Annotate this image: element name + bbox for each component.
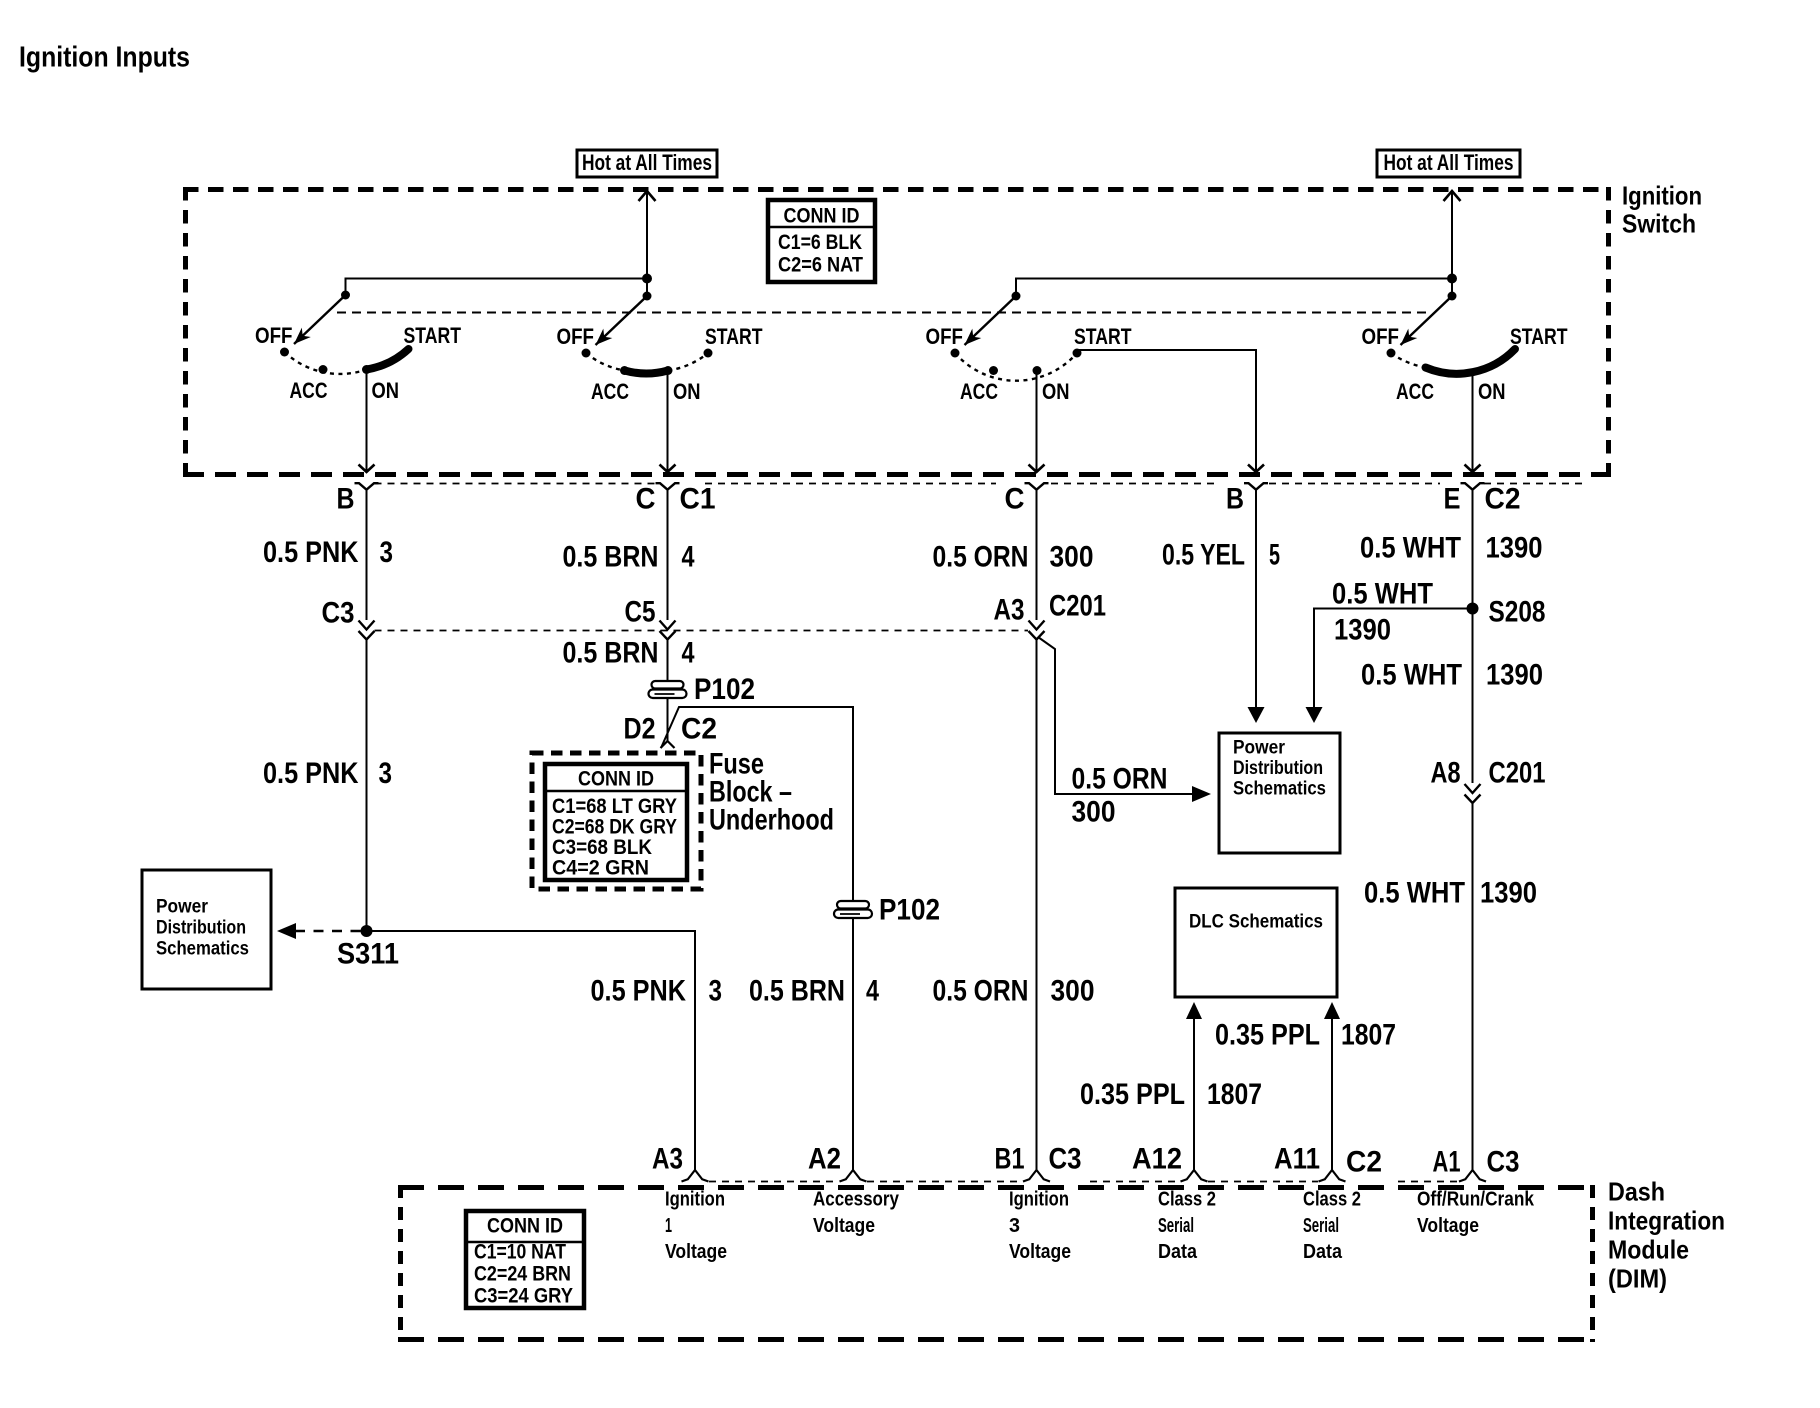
thin dashed connector line C201/C5/C3 row bbox=[375, 630, 1029, 632]
svg-text:0.5 BRN: 0.5 BRN bbox=[563, 636, 659, 669]
wire 0.5 BRN 4 second segment bbox=[667, 640, 669, 682]
svg-text:A3: A3 bbox=[652, 1142, 683, 1175]
svg-text:C3=24 GRY: C3=24 GRY bbox=[474, 1285, 573, 1308]
svg-text:C: C bbox=[636, 482, 656, 515]
connector C5 inline bbox=[660, 621, 676, 640]
svg-text:Switch: Switch bbox=[1622, 208, 1696, 238]
ignition switch S3 pivot bbox=[1012, 292, 1021, 301]
svg-text:0.5 PNK: 0.5 PNK bbox=[263, 757, 359, 790]
wire bus ignition switch 1-2 bbox=[346, 279, 648, 296]
svg-text:300: 300 bbox=[1050, 540, 1094, 573]
wire hot feed to left Hot at All Times with up arrow bbox=[639, 191, 656, 296]
junction dot feed 2 bbox=[1447, 274, 1457, 284]
wire 0.5 BRN 4 upper segment bbox=[667, 497, 669, 620]
svg-text:Integration: Integration bbox=[1608, 1205, 1725, 1235]
ignition switch S1 position arc thick ON-START bbox=[367, 349, 409, 370]
svg-text:START: START bbox=[705, 324, 763, 349]
svg-text:Voltage: Voltage bbox=[813, 1214, 875, 1237]
svg-text:Underhood: Underhood bbox=[709, 803, 834, 836]
svg-text:0.5 YEL: 0.5 YEL bbox=[1162, 538, 1245, 571]
inline connector P102 (accessory wire) bbox=[834, 901, 872, 918]
svg-text:A3: A3 bbox=[994, 593, 1025, 626]
wire 0.5 ORN 300 main segment down to B1 bbox=[1036, 640, 1038, 1171]
svg-text:0.5 WHT: 0.5 WHT bbox=[1361, 658, 1462, 691]
svg-text:S311: S311 bbox=[337, 937, 399, 970]
label Ignition Switch bbox=[1622, 181, 1702, 239]
connector D2 at fuse block bbox=[661, 741, 675, 748]
svg-text:ON: ON bbox=[1478, 379, 1506, 404]
svg-text:Schematics: Schematics bbox=[156, 937, 249, 959]
svg-text:CONN ID: CONN ID bbox=[487, 1214, 563, 1237]
svg-text:OFF: OFF bbox=[557, 324, 595, 349]
wire hot feed to right Hot at All Times with up arrow bbox=[1444, 191, 1461, 296]
svg-text:C201: C201 bbox=[1489, 756, 1546, 789]
svg-text:0.5 PNK: 0.5 PNK bbox=[591, 974, 687, 1007]
inline connector P102 (wire 2) bbox=[649, 681, 687, 698]
fuse block enclosure box bbox=[532, 753, 701, 889]
wire bus ignition switch 3-4 bbox=[1016, 279, 1452, 297]
svg-text:Ignition Inputs: Ignition Inputs bbox=[19, 41, 190, 73]
ignition switch S2 ON contact bbox=[664, 366, 673, 375]
ignition switch S1 pivot bbox=[341, 291, 350, 300]
ignition switch enclosure box bbox=[183, 187, 1611, 476]
svg-text:CONN ID: CONN ID bbox=[578, 767, 654, 790]
svg-text:Voltage: Voltage bbox=[1417, 1214, 1479, 1237]
ignition switch S2 position arc thick ACC-ON bbox=[625, 371, 669, 374]
ignition switch S2 pivot bbox=[643, 292, 652, 301]
ignition switch S2 START contact bbox=[704, 349, 713, 358]
svg-text:Power: Power bbox=[1233, 736, 1285, 758]
ignition switch S4 OFF contact bbox=[1387, 349, 1396, 358]
ignition switch S3 travel arc dashed bbox=[955, 353, 1077, 381]
svg-text:Ignition: Ignition bbox=[1622, 181, 1702, 211]
connector pin C at ignition switch bottom edge bbox=[1025, 483, 1049, 490]
svg-text:1390: 1390 bbox=[1486, 531, 1543, 564]
svg-text:0.5 WHT: 0.5 WHT bbox=[1360, 531, 1461, 564]
pin function Class 2 Serial Data (A12) bbox=[1158, 1188, 1216, 1263]
ignition switch S1 ACC contact bbox=[319, 365, 328, 374]
svg-text:Data: Data bbox=[1303, 1240, 1343, 1263]
wire S1 ON output down bbox=[359, 372, 375, 472]
wire 0.5 PNK 3 mid segment bbox=[366, 640, 368, 932]
wire S3 START output right then down bbox=[1077, 350, 1264, 472]
wire 0.5 PNK from S311 right and down to A3 bbox=[367, 931, 696, 1170]
svg-text:1: 1 bbox=[665, 1214, 672, 1237]
svg-text:3: 3 bbox=[380, 536, 394, 569]
svg-text:C3: C3 bbox=[322, 597, 355, 630]
svg-text:ACC: ACC bbox=[290, 378, 328, 403]
svg-text:0.5 ORN: 0.5 ORN bbox=[933, 974, 1029, 1007]
ignition switch S3 OFF contact bbox=[951, 349, 960, 358]
svg-text:C4=2 GRN: C4=2 GRN bbox=[552, 857, 649, 880]
wire 0.5 WHT 1390 upper segment bbox=[1472, 497, 1474, 783]
svg-text:C201: C201 bbox=[1049, 590, 1106, 623]
wire 0.5 ORN 300 branch to power distribution bbox=[1038, 637, 1211, 802]
svg-text:1390: 1390 bbox=[1334, 613, 1391, 646]
wire 0.5 WHT branch from S208 to power distribution bbox=[1306, 609, 1472, 724]
svg-text:START: START bbox=[1510, 324, 1568, 349]
svg-text:A11: A11 bbox=[1274, 1142, 1320, 1175]
connector pin A11 at DIM top edge bbox=[1319, 1170, 1346, 1182]
svg-text:B1: B1 bbox=[995, 1142, 1025, 1175]
svg-text:START: START bbox=[1074, 324, 1132, 349]
svg-text:1807: 1807 bbox=[1207, 1078, 1262, 1111]
svg-text:0.5 BRN: 0.5 BRN bbox=[749, 974, 845, 1007]
connector pin A2 at DIM top edge bbox=[840, 1170, 867, 1182]
module box DLC Schematics bbox=[1175, 888, 1337, 997]
thin dashed connector line at DIM top bbox=[709, 1181, 1458, 1183]
connector pin A1 at DIM top edge bbox=[1459, 1170, 1486, 1182]
svg-text:4: 4 bbox=[682, 540, 695, 573]
connector C3 inline bbox=[359, 621, 375, 640]
svg-text:Hot at All Times: Hot at All Times bbox=[1384, 150, 1514, 175]
connector C201 inline (wire 5) bbox=[1465, 784, 1481, 803]
ignition switch S2 ACC contact bbox=[620, 366, 629, 375]
thin dashed connector line at ignition switch bottom bbox=[375, 483, 1583, 485]
svg-text:C2: C2 bbox=[1346, 1145, 1382, 1178]
pin function Ignition 1 Voltage bbox=[665, 1188, 727, 1263]
svg-text:0.5 BRN: 0.5 BRN bbox=[563, 540, 659, 573]
svg-text:Dash: Dash bbox=[1608, 1176, 1665, 1206]
svg-text:A8: A8 bbox=[1431, 756, 1461, 789]
module box Power Distribution Schematics (right) bbox=[1219, 733, 1340, 853]
svg-text:C3: C3 bbox=[1049, 1142, 1082, 1175]
svg-text:300: 300 bbox=[1051, 974, 1095, 1007]
svg-text:OFF: OFF bbox=[926, 324, 964, 349]
wire S3 ON output down bbox=[1029, 372, 1045, 472]
svg-text:ACC: ACC bbox=[960, 379, 998, 404]
svg-text:1390: 1390 bbox=[1480, 876, 1537, 909]
wire S4 ON output down bbox=[1465, 374, 1481, 472]
svg-text:4: 4 bbox=[866, 974, 879, 1007]
ignition switch S2 wiper arm bbox=[596, 296, 648, 345]
ignition switch S4 position arc thick ACC-START bbox=[1426, 349, 1516, 374]
svg-text:S208: S208 bbox=[1489, 595, 1546, 628]
svg-text:4: 4 bbox=[682, 636, 695, 669]
ignition switch S1 ON contact bbox=[362, 365, 371, 374]
svg-text:0.5 WHT: 0.5 WHT bbox=[1332, 577, 1433, 610]
dash integration module enclosure box bbox=[398, 1185, 1595, 1342]
svg-text:C2: C2 bbox=[1485, 482, 1521, 515]
ignition switch S2 OFF contact bbox=[582, 349, 591, 358]
svg-text:(DIM): (DIM) bbox=[1608, 1263, 1667, 1293]
connector pin B at ignition switch bottom edge bbox=[355, 483, 379, 490]
svg-text:Module: Module bbox=[1608, 1234, 1689, 1264]
svg-text:A2: A2 bbox=[808, 1142, 841, 1175]
junction dot feed 1 bbox=[642, 274, 652, 284]
CONN ID table (DIM) bbox=[466, 1211, 584, 1308]
svg-text:A1: A1 bbox=[1433, 1145, 1461, 1178]
svg-text:Ignition: Ignition bbox=[1009, 1188, 1069, 1211]
svg-text:C1=6 BLK: C1=6 BLK bbox=[778, 231, 862, 254]
connector pin B2 at ignition switch bottom edge bbox=[1244, 483, 1268, 490]
connector pin B1 at DIM top edge bbox=[1023, 1170, 1050, 1182]
ignition switch S4 wiper arm bbox=[1401, 296, 1453, 345]
pin function Accessory Voltage bbox=[813, 1188, 899, 1237]
svg-text:ON: ON bbox=[673, 379, 701, 404]
svg-text:CONN ID: CONN ID bbox=[784, 205, 860, 228]
power feed box Hot at All Times (left) bbox=[577, 150, 717, 177]
wire S2 ON output down bbox=[660, 373, 676, 472]
svg-text:5: 5 bbox=[1269, 538, 1280, 571]
pin function Off/Run/Crank Voltage bbox=[1417, 1188, 1534, 1237]
svg-text:Distribution: Distribution bbox=[1233, 757, 1323, 779]
ignition switch S3 ACC contact bbox=[989, 366, 998, 375]
svg-text:OFF: OFF bbox=[1362, 324, 1400, 349]
ignition switch S3 wiper arm bbox=[965, 296, 1017, 345]
svg-text:E: E bbox=[1444, 482, 1461, 515]
svg-text:0.5 WHT: 0.5 WHT bbox=[1364, 876, 1465, 909]
svg-text:Voltage: Voltage bbox=[665, 1240, 727, 1263]
svg-text:Off/Run/Crank: Off/Run/Crank bbox=[1417, 1188, 1534, 1211]
svg-text:Ignition: Ignition bbox=[665, 1188, 725, 1211]
connector pin A3 at DIM top edge bbox=[682, 1170, 709, 1182]
svg-text:Accessory: Accessory bbox=[813, 1188, 899, 1211]
svg-text:ON: ON bbox=[1042, 379, 1070, 404]
wire 0.35 PPL 1807 from A12 to DLC bbox=[1186, 1002, 1202, 1170]
svg-text:Class 2: Class 2 bbox=[1303, 1188, 1361, 1211]
wire 0.5 BRN 4 accessory to A2 bbox=[852, 918, 854, 1171]
svg-text:0.5 ORN: 0.5 ORN bbox=[933, 540, 1029, 573]
svg-text:P102: P102 bbox=[694, 673, 755, 706]
ignition switch S2 travel arc dashed left bbox=[586, 353, 625, 371]
svg-text:1807: 1807 bbox=[1341, 1019, 1396, 1052]
svg-text:START: START bbox=[404, 323, 462, 348]
connector pin C-C1 at ignition switch bottom edge bbox=[656, 483, 680, 490]
svg-text:ON: ON bbox=[372, 378, 400, 403]
label Fuse Block - Underhood bbox=[709, 747, 834, 836]
svg-text:OFF: OFF bbox=[255, 323, 293, 348]
ignition switch S3 START contact bbox=[1073, 349, 1082, 358]
wire 0.35 PPL 1807 from A11 to DLC bbox=[1324, 1002, 1340, 1170]
ignition switch S4 travel arc dashed bbox=[1391, 353, 1427, 368]
svg-text:Power: Power bbox=[156, 895, 208, 917]
svg-text:ACC: ACC bbox=[591, 379, 629, 404]
svg-text:B: B bbox=[1226, 482, 1244, 515]
svg-text:D2: D2 bbox=[624, 713, 656, 746]
svg-text:1390: 1390 bbox=[1486, 658, 1543, 691]
ignition switch S3 ON contact bbox=[1033, 366, 1042, 375]
power feed box Hot at All Times (right) bbox=[1377, 150, 1520, 177]
svg-text:300: 300 bbox=[1072, 795, 1116, 828]
svg-text:C2=24 BRN: C2=24 BRN bbox=[474, 1263, 571, 1286]
CONN ID table (fuse block) bbox=[545, 764, 687, 880]
svg-text:Data: Data bbox=[1158, 1240, 1198, 1263]
connector pin A12 at DIM top edge bbox=[1181, 1170, 1208, 1182]
svg-text:C: C bbox=[1005, 482, 1025, 515]
wire 0.5 BRN 4 below P102 bbox=[667, 698, 669, 742]
wire 0.5 PNK 3 upper segment bbox=[366, 497, 368, 620]
pin function Ignition 3 Voltage bbox=[1009, 1188, 1071, 1263]
wire accessory feed C2 from fuse block to P102 bbox=[661, 707, 853, 901]
ignition switch S1 wiper arm bbox=[294, 295, 346, 344]
svg-text:P102: P102 bbox=[879, 893, 940, 926]
wire 0.5 YEL 5 down to power distribution bbox=[1248, 497, 1265, 723]
svg-text:C1=10 NAT: C1=10 NAT bbox=[474, 1241, 566, 1264]
svg-text:Schematics: Schematics bbox=[1233, 777, 1326, 799]
svg-text:Voltage: Voltage bbox=[1009, 1240, 1071, 1263]
svg-text:C2=6 NAT: C2=6 NAT bbox=[778, 254, 863, 277]
svg-text:Serial: Serial bbox=[1303, 1214, 1339, 1237]
svg-text:0.35 PPL: 0.35 PPL bbox=[1215, 1019, 1320, 1052]
svg-text:0.35 PPL: 0.35 PPL bbox=[1080, 1078, 1185, 1111]
ignition switch S1 OFF contact bbox=[280, 348, 289, 357]
svg-text:0.5 ORN: 0.5 ORN bbox=[1072, 763, 1168, 796]
ignition switch ganged linkage dashed line bbox=[337, 312, 1428, 314]
svg-text:Serial: Serial bbox=[1158, 1214, 1194, 1237]
CONN ID table (ignition switch) bbox=[768, 200, 875, 282]
svg-text:0.5 PNK: 0.5 PNK bbox=[263, 536, 359, 569]
dashed arrow from S311 to Power Distribution Schematics bbox=[277, 923, 363, 939]
svg-text:C1: C1 bbox=[680, 482, 716, 515]
svg-text:A12: A12 bbox=[1132, 1142, 1182, 1175]
connector pin E-C2 at ignition switch bottom edge bbox=[1461, 483, 1485, 490]
svg-text:B: B bbox=[337, 482, 355, 515]
svg-text:3: 3 bbox=[1009, 1214, 1020, 1237]
ignition switch S4 pivot bbox=[1448, 292, 1457, 301]
svg-text:3: 3 bbox=[379, 757, 393, 790]
ignition switch S1 travel arc dashed bbox=[285, 352, 367, 374]
svg-text:C5: C5 bbox=[625, 595, 656, 628]
svg-text:Distribution: Distribution bbox=[156, 916, 246, 938]
wire 0.5 WHT 1390 lower segment bbox=[1472, 803, 1474, 1170]
module box Power Distribution Schematics (left) bbox=[142, 870, 271, 989]
svg-text:3: 3 bbox=[709, 974, 723, 1007]
splice S311 bbox=[361, 925, 373, 937]
pin function Class 2 Serial Data (A11) bbox=[1303, 1188, 1361, 1263]
svg-text:C2: C2 bbox=[681, 713, 717, 746]
svg-text:Class 2: Class 2 bbox=[1158, 1188, 1216, 1211]
svg-text:DLC Schematics: DLC Schematics bbox=[1189, 910, 1323, 932]
connector C201 inline (wire 3) bbox=[1029, 621, 1045, 640]
svg-text:Hot at All Times: Hot at All Times bbox=[582, 150, 712, 175]
svg-text:ACC: ACC bbox=[1396, 379, 1434, 404]
svg-text:C3: C3 bbox=[1487, 1145, 1520, 1178]
splice S208 bbox=[1467, 603, 1479, 615]
wire 0.5 ORN 300 upper segment bbox=[1036, 497, 1038, 620]
label Dash Integration Module (DIM) bbox=[1608, 1176, 1725, 1293]
ignition switch S2 travel arc dashed right bbox=[668, 353, 708, 371]
